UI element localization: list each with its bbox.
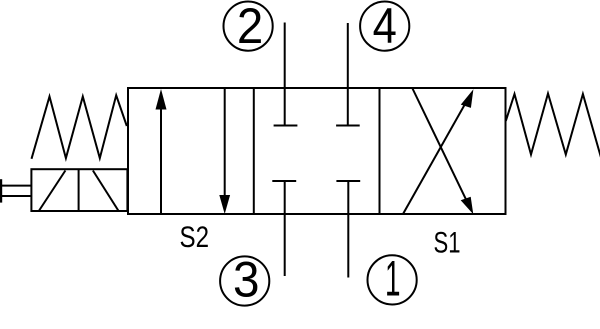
- svg-text:1: 1: [385, 251, 401, 307]
- svg-text:S2: S2: [180, 221, 210, 254]
- svg-text:3: 3: [233, 252, 260, 308]
- svg-text:S1: S1: [434, 227, 461, 260]
- svg-text:2: 2: [237, 0, 263, 54]
- svg-text:4: 4: [373, 0, 397, 54]
